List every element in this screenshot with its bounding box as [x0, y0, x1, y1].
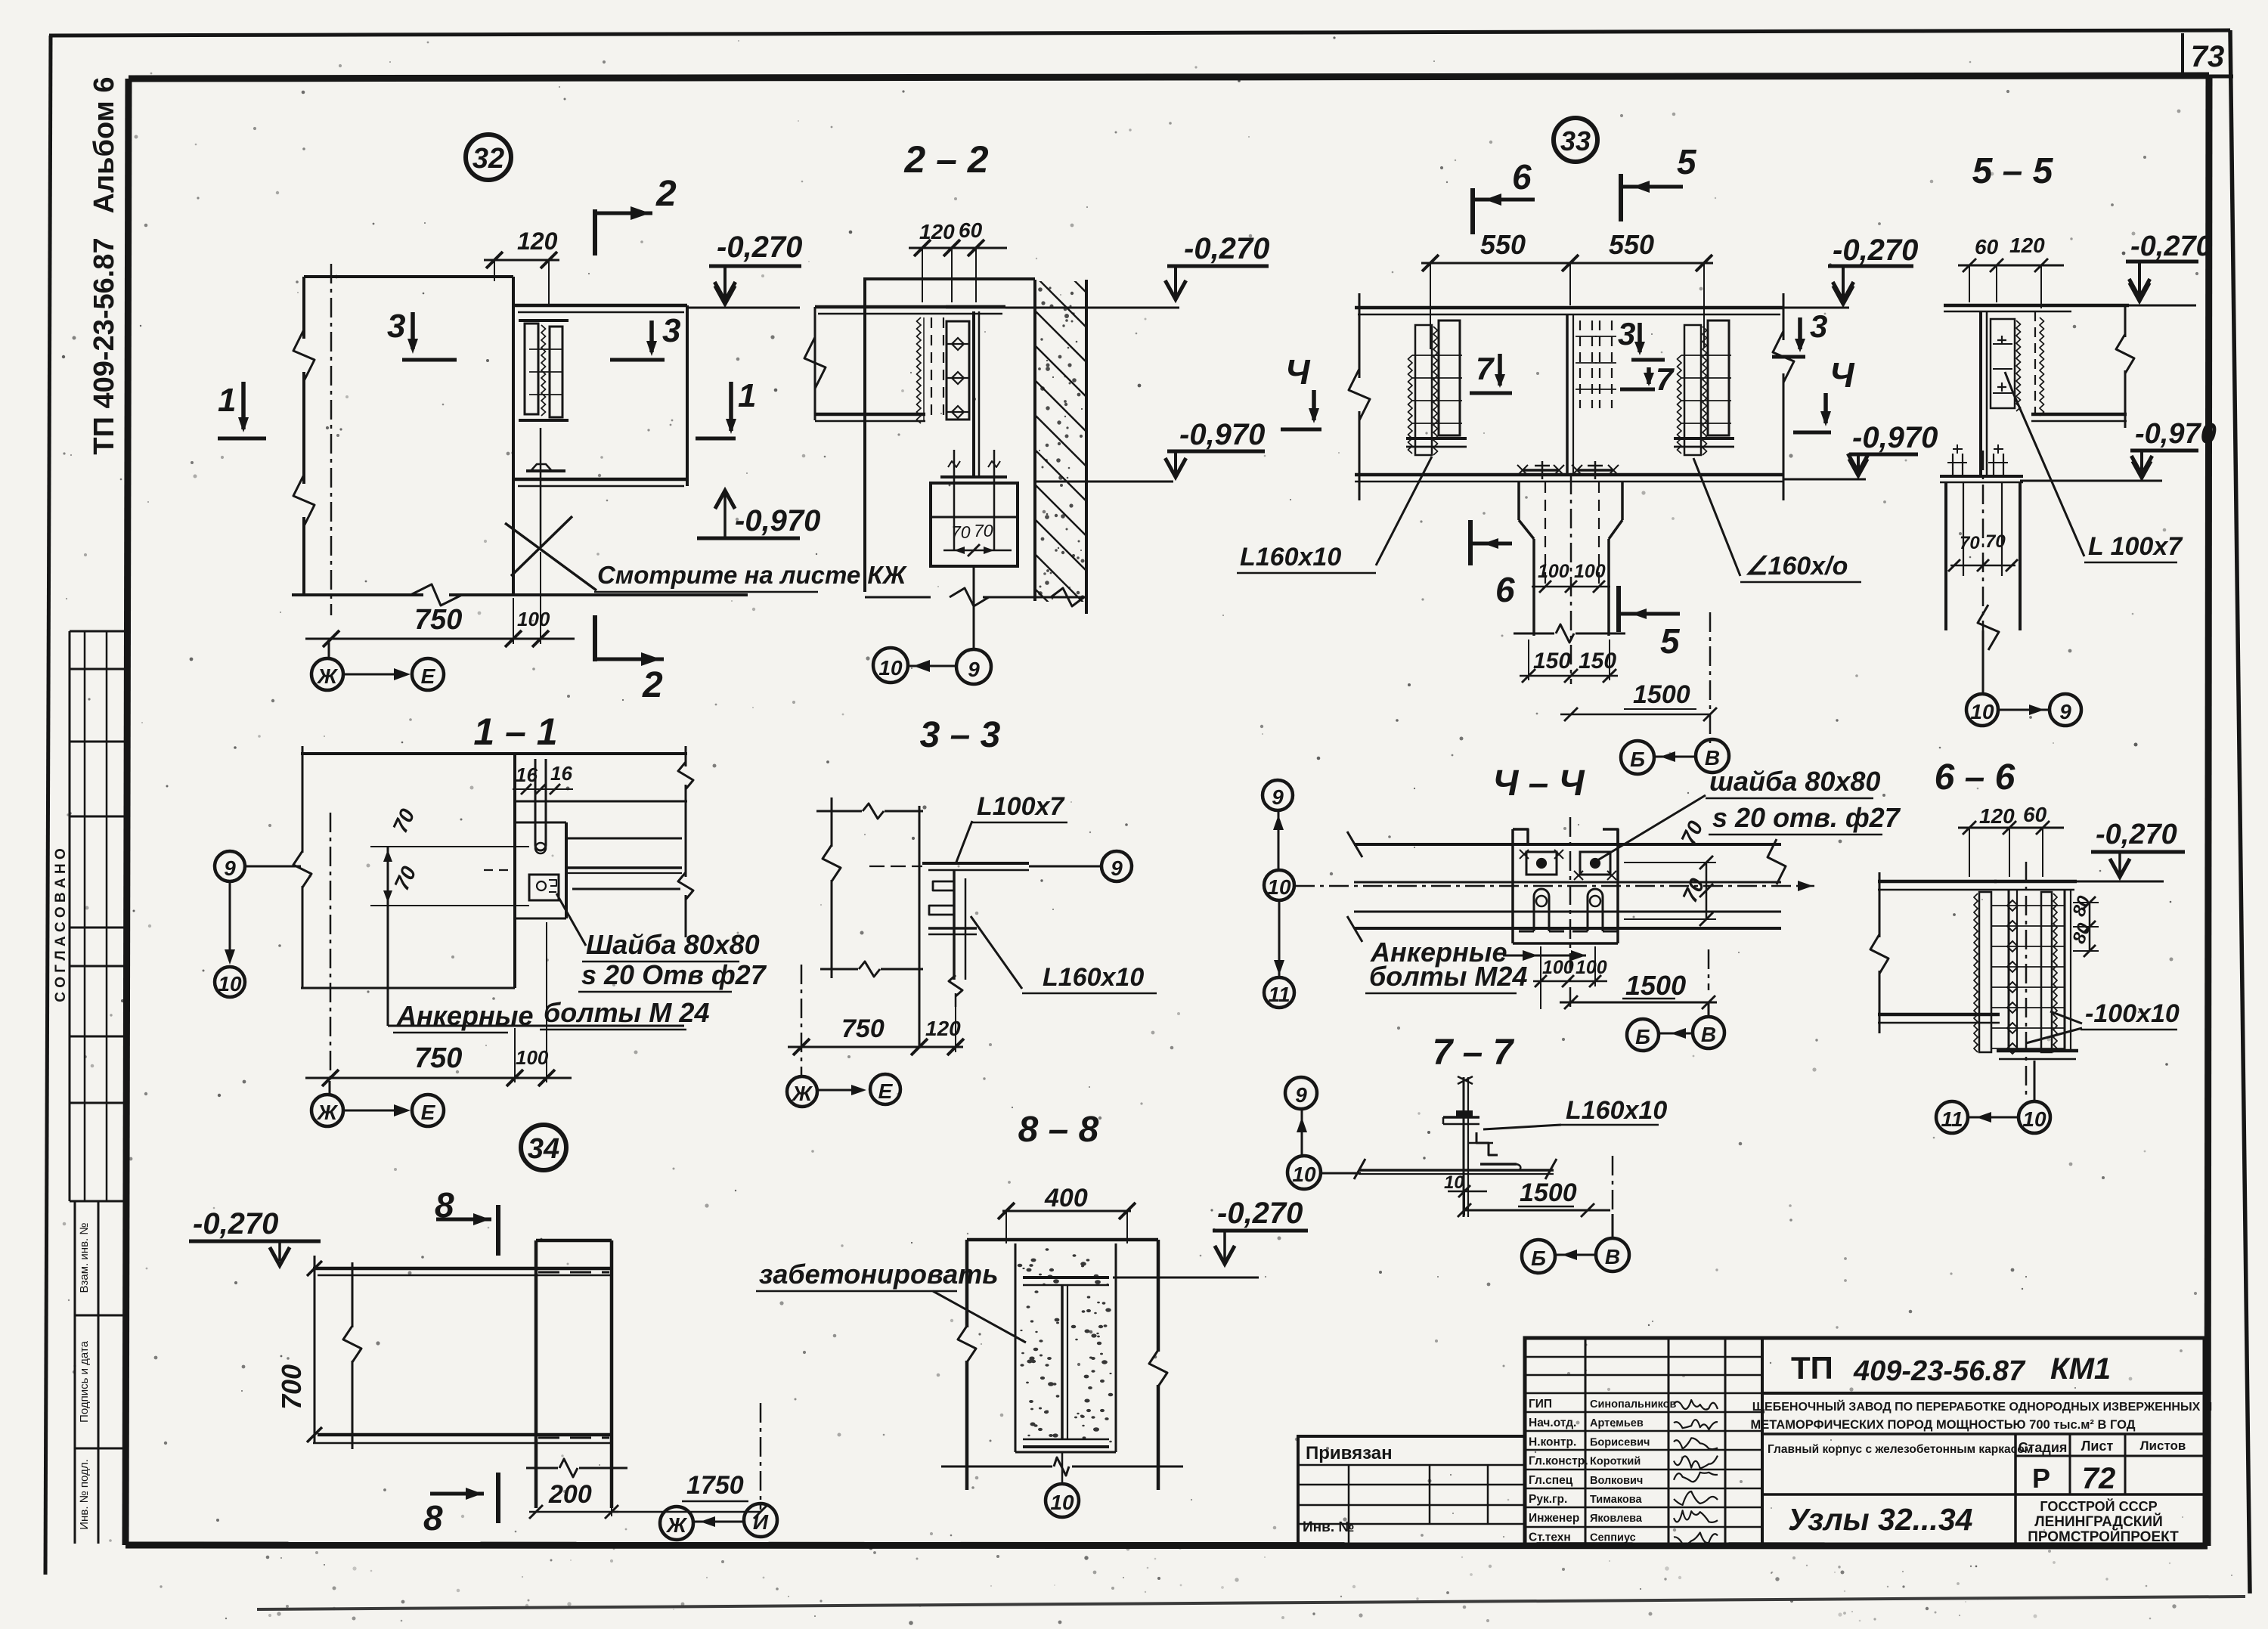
svg-text:73: 73	[2191, 40, 2225, 73]
svg-text:Узлы 32...34: Узлы 32...34	[1788, 1502, 1973, 1537]
section mark 6 bottom	[1468, 520, 1473, 565]
left angle plate	[1439, 321, 1460, 435]
slot with bolt 1-1	[534, 759, 537, 845]
section mark 2 top	[593, 209, 597, 255]
top angle plate 7-7	[1443, 1116, 1479, 1119]
svg-text:7: 7	[1476, 351, 1495, 386]
svg-text:Анкерные: Анкерные	[396, 1000, 534, 1031]
outer border right	[2230, 30, 2250, 1593]
sheet number box 73	[2181, 33, 2184, 77]
svg-text:ЛЕНИНГРАДСКИЙ: ЛЕНИНГРАДСКИЙ	[2034, 1513, 2162, 1530]
beam 33 right end	[1783, 293, 1785, 340]
svg-text:Смотрите на листе КЖ: Смотрите на листе КЖ	[597, 561, 908, 589]
section mark 8 bottom	[430, 1492, 484, 1496]
svg-text:120: 120	[919, 220, 955, 243]
svg-text:Ч – Ч: Ч – Ч	[1492, 763, 1585, 804]
pedestal detail 33	[1517, 482, 1520, 520]
column centerline	[330, 264, 333, 615]
svg-text:Стадия: Стадия	[2019, 1440, 2068, 1455]
centerline axis I 34	[760, 1403, 762, 1510]
svg-text:1500: 1500	[1633, 680, 1690, 709]
column edge detail 2-2	[863, 277, 866, 592]
svg-text:10: 10	[1970, 700, 1994, 723]
washer right 4-4	[1580, 852, 1610, 875]
column top cap 6-6	[1994, 880, 2077, 884]
svg-text:Ч: Ч	[1285, 352, 1311, 392]
tee top flange 5-5	[1944, 304, 2129, 308]
svg-text:Е: Е	[421, 664, 436, 688]
svg-text:750: 750	[414, 604, 462, 636]
hidden flange dashes in column	[538, 1271, 609, 1274]
beam 6-6 bottom flange	[1878, 1013, 2000, 1017]
dimension 80 80 detail 6-6	[2089, 903, 2091, 951]
svg-text:-0,970: -0,970	[2135, 418, 2217, 450]
axis line to bubble 9	[973, 566, 975, 649]
svg-text:-100х10: -100х10	[2085, 999, 2180, 1028]
axis bubble Zh-E 3-3	[787, 1076, 817, 1107]
svg-text:шайба 80х80: шайба 80х80	[1709, 766, 1880, 797]
svg-text:7 – 7: 7 – 7	[1433, 1033, 1515, 1073]
svg-text:И: И	[753, 1510, 769, 1534]
beam detail 2-2 top flange	[815, 305, 1005, 309]
T column web	[972, 311, 975, 477]
svg-text:34: 34	[528, 1133, 559, 1165]
detail 34 node circle	[521, 1125, 566, 1170]
svg-text:Главный корпус с железобетонны: Главный корпус с железобетонным каркасом	[1768, 1443, 2033, 1456]
svg-text:750: 750	[414, 1042, 462, 1074]
svg-text:Борисевич: Борисевич	[1590, 1436, 1650, 1448]
beam 33 left end	[1359, 293, 1361, 378]
slot right 4-4	[1587, 897, 1589, 931]
svg-text:5: 5	[1660, 621, 1681, 661]
svg-text:32: 32	[472, 143, 504, 175]
beam lines right 1-1	[566, 838, 682, 840]
svg-text:72: 72	[2082, 1462, 2116, 1495]
wall left line 3-3	[831, 797, 833, 847]
beam line 7-7	[1359, 1169, 1554, 1172]
detail 33 node circle	[1554, 118, 1597, 162]
svg-text:70: 70	[1985, 531, 2006, 552]
svg-text:3: 3	[1810, 308, 1827, 344]
pedestal bolt lines 5-5	[1963, 482, 1964, 576]
anchor bolts detail 2-2	[953, 450, 956, 550]
svg-text:Нач.отд.: Нач.отд.	[1529, 1417, 1576, 1429]
right angle plate	[1708, 321, 1729, 435]
svg-text:Ж: Ж	[665, 1513, 688, 1537]
axis bubbles 9 10 left	[215, 851, 245, 881]
svg-text:100: 100	[1538, 561, 1569, 582]
angle foot 7-7	[1480, 1163, 1517, 1166]
diagonal brace lines	[511, 516, 572, 576]
beam 33 bottom flange	[1355, 473, 1783, 477]
svg-text:1750: 1750	[686, 1471, 744, 1500]
svg-text:Инженер: Инженер	[1529, 1512, 1579, 1525]
svg-text:L160х10: L160х10	[1043, 963, 1144, 992]
svg-text:ЩЕБЕНОЧНЫЙ ЗАВОД ПО ПЕРЕРАБОТК: ЩЕБЕНОЧНЫЙ ЗАВОД ПО ПЕРЕРАБОТКЕ ОДНОРОДН…	[1752, 1399, 2213, 1414]
axis bubble Zh-E 1-1	[329, 1081, 331, 1095]
svg-text:Альбом 6: Альбом 6	[88, 77, 120, 214]
title block outer	[1525, 1338, 2204, 1546]
svg-text:Б: Б	[1635, 1025, 1650, 1048]
beam right end break 1-1	[685, 746, 687, 766]
level mark -0.970 detail 32	[715, 491, 735, 509]
svg-text:6: 6	[1512, 157, 1532, 197]
right angle assembly serrated strip	[1684, 325, 1701, 455]
axis line to bubble 10	[1982, 630, 1984, 694]
title block right section	[1762, 1392, 2204, 1395]
angle L160 vertical leg 3-3	[928, 927, 977, 930]
plan rect 1-1	[387, 847, 389, 1026]
section mark 2 bottom	[593, 615, 597, 661]
cross tick 7-7	[1467, 1142, 1493, 1144]
weld serration detail 2-2	[917, 317, 922, 423]
weld serration	[541, 325, 546, 416]
svg-text:ТП 409-23-56.87: ТП 409-23-56.87	[88, 237, 120, 454]
svg-text:9: 9	[1295, 1083, 1307, 1107]
svg-text:9: 9	[224, 856, 236, 880]
svg-text:МЕТАМОРФИЧЕСКИХ ПОРОД МОЩНОСТЬ: МЕТАМОРФИЧЕСКИХ ПОРОД МОЩНОСТЬЮ 700 тыс.…	[1750, 1418, 2135, 1432]
I-beam flange bottom	[519, 419, 569, 422]
splice centerline 4-4	[1569, 817, 1572, 1011]
svg-text:409-23-56.87: 409-23-56.87	[1853, 1355, 2026, 1387]
svg-text:10: 10	[2022, 1107, 2046, 1131]
column outline detail 32	[304, 275, 513, 278]
svg-text:100: 100	[517, 608, 550, 630]
svg-text:550: 550	[1609, 229, 1654, 260]
svg-text:10: 10	[878, 656, 903, 680]
svg-text:6: 6	[1495, 570, 1515, 609]
svg-text:Волкович: Волкович	[1590, 1475, 1643, 1487]
svg-text:Ч: Ч	[1830, 355, 1855, 395]
axis bubble 11 detail 6-6	[1936, 1101, 1968, 1133]
wall bottom line 3-3	[820, 968, 858, 971]
base bolts 5-5	[1952, 454, 1954, 476]
splice plate 4-4	[1513, 829, 1618, 844]
svg-text:Короткий: Короткий	[1590, 1456, 1641, 1468]
washer square 1-1	[529, 875, 559, 900]
svg-text:ГИП: ГИП	[1529, 1398, 1552, 1411]
axis dashdot 7-7	[1612, 1156, 1614, 1214]
axis bubble B-V 7-7	[1522, 1240, 1555, 1273]
axis bubbles 9 10 11 left of 4-4	[1263, 780, 1293, 810]
axis bubble 9 detail 2-2	[956, 649, 991, 684]
svg-text:9: 9	[2059, 700, 2071, 723]
staff signatures	[1674, 1400, 1718, 1410]
svg-text:7: 7	[1656, 361, 1675, 397]
bolt gauge lines 6-6	[1991, 906, 2065, 1048]
bottom sidebar strip table	[74, 1201, 76, 1544]
angle serrated plate 5-5	[1991, 319, 2015, 408]
svg-text:Лист: Лист	[2081, 1439, 2114, 1454]
svg-text:∠160х/о: ∠160х/о	[1745, 552, 1848, 581]
svg-text:120: 120	[925, 1017, 961, 1040]
svg-text:-0,270: -0,270	[717, 231, 802, 264]
pedestal centerline	[1570, 475, 1572, 684]
svg-text:9: 9	[1272, 785, 1284, 809]
connection plate left	[525, 324, 538, 414]
plate strip verticals 1-1	[513, 754, 516, 988]
pedestal centerline 5-5	[1982, 451, 1984, 694]
channel profile 3-3	[953, 870, 956, 980]
svg-text:-0,970: -0,970	[1179, 418, 1265, 451]
svg-text:Сеппиус: Сеппиус	[1590, 1531, 1636, 1544]
section mark 5 top	[1619, 174, 1623, 221]
svg-text:9: 9	[968, 658, 980, 681]
hidden angle middle dashed	[1579, 321, 1581, 408]
svg-text:700: 700	[276, 1364, 307, 1410]
axis extension dashdot	[1709, 612, 1712, 745]
svg-text:Тимакова: Тимакова	[1590, 1494, 1642, 1506]
svg-text:-0,970: -0,970	[735, 504, 820, 537]
svg-text:Листов: Листов	[2140, 1439, 2186, 1453]
left assembly bottom plate	[1406, 437, 1467, 440]
beam second line 1-1	[515, 801, 687, 803]
svg-text:11: 11	[1268, 983, 1290, 1006]
left serrated strip 6-6	[1979, 892, 1991, 1052]
axis bubble B-V detail 33	[1621, 741, 1654, 774]
svg-text:3: 3	[387, 308, 405, 345]
right assembly bottom plate	[1674, 437, 1734, 440]
beam 34 bottom flange	[318, 1433, 612, 1437]
svg-text:С О Г Л А С О В А Н О: С О Г Л А С О В А Н О	[53, 848, 69, 1002]
svg-text:Гл.констр.: Гл.констр.	[1529, 1455, 1588, 1468]
svg-text:ТП: ТП	[1791, 1350, 1833, 1386]
axis bubble 9 detail 5-5	[2050, 694, 2081, 726]
hidden lines gusset	[931, 317, 932, 420]
svg-text:400: 400	[1044, 1184, 1088, 1212]
svg-text:Н.контр.: Н.контр.	[1529, 1435, 1576, 1448]
axis bubble B-V 4-4	[1627, 1019, 1659, 1051]
privyazan box	[1298, 1436, 1525, 1545]
I-beam flange top	[519, 319, 569, 322]
svg-text:10: 10	[1292, 1163, 1316, 1186]
axis bubble 10 detail 5-5	[1966, 694, 1998, 726]
axis bubble 10 detail 2-2	[873, 648, 908, 683]
svg-text:-0,970: -0,970	[1852, 421, 1938, 454]
svg-text:Р: Р	[2032, 1463, 2050, 1494]
angle step 7-7	[1476, 1132, 1498, 1155]
svg-text:10: 10	[1444, 1172, 1464, 1193]
concrete pocket 8-8	[1015, 1243, 1017, 1452]
svg-text:150: 150	[1579, 649, 1616, 674]
axis line to bubble 10 6-6	[2034, 1061, 2036, 1101]
svg-text:150: 150	[1533, 649, 1571, 674]
axis bubble 10 detail 6-6	[2019, 1101, 2050, 1133]
svg-text:60: 60	[2023, 803, 2047, 826]
svg-text:L 100х7: L 100х7	[2088, 532, 2183, 561]
pedestal break line	[1514, 633, 1554, 635]
svg-text:-0,270: -0,270	[2096, 819, 2177, 850]
beam plan right break	[1768, 839, 1786, 884]
svg-text:3 – 3: 3 – 3	[920, 715, 1001, 755]
slot left 4-4	[1533, 897, 1535, 931]
wall right line 3-3	[919, 806, 921, 1048]
svg-text:10: 10	[1267, 875, 1291, 899]
svg-text:60: 60	[959, 218, 983, 242]
svg-text:70: 70	[974, 521, 993, 540]
section mark 6 top	[1470, 188, 1475, 234]
svg-text:Подпись и дата: Подпись и дата	[78, 1340, 91, 1423]
section mark 5 bottom	[1616, 586, 1621, 632]
column face line	[512, 277, 515, 595]
pedestal break 5-5	[1978, 605, 1999, 650]
svg-text:Ж: Ж	[316, 664, 339, 688]
beam top flange detail 32	[513, 304, 687, 308]
svg-text:1: 1	[218, 382, 236, 419]
svg-text:100: 100	[1576, 957, 1607, 978]
centerline 1-1	[330, 813, 332, 1082]
beam detail 2-2 bottom flange	[815, 413, 925, 417]
svg-text:Б: Б	[1630, 748, 1645, 771]
svg-text:-0,270: -0,270	[1833, 234, 1918, 267]
axis bubbles 9 10 7-7	[1285, 1077, 1317, 1109]
column break line 34	[526, 1467, 558, 1470]
axis 10 line 7-7	[1321, 1172, 1361, 1175]
left angle assembly serrated strip	[1415, 325, 1432, 455]
splice joint centerline	[1566, 314, 1569, 475]
column 34	[534, 1240, 538, 1508]
svg-text:120: 120	[2009, 234, 2045, 257]
bolt plate 6-6	[2008, 890, 2010, 1051]
svg-text:8: 8	[423, 1498, 443, 1538]
svg-text:Гл.спец: Гл.спец	[1529, 1474, 1573, 1487]
svg-text:2: 2	[655, 174, 677, 214]
axis bubble Zh-I 34	[660, 1507, 693, 1540]
svg-text:-0,270: -0,270	[1184, 232, 1269, 265]
bolt plate detail 2-2	[947, 321, 969, 420]
beam plan top edge 4-4	[1354, 843, 1781, 846]
svg-text:550: 550	[1480, 229, 1526, 260]
svg-text:ПРОМСТРОЙПРОЕКТ: ПРОМСТРОЙПРОЕКТ	[2028, 1528, 2179, 1545]
svg-text:11: 11	[1941, 1107, 1963, 1131]
column web 5-5	[1979, 311, 1982, 475]
svg-text:3: 3	[662, 312, 680, 349]
svg-text:5: 5	[1677, 142, 1697, 181]
svg-text:-0,270: -0,270	[193, 1207, 278, 1240]
svg-text:L160х10: L160х10	[1240, 543, 1341, 571]
dimension 750/100 detail 32	[305, 638, 575, 640]
column centerline 6-6	[2025, 862, 2028, 1098]
svg-text:забетонировать: забетонировать	[759, 1259, 999, 1290]
svg-text:Синопальников: Синопальников	[1590, 1398, 1677, 1411]
beam bottom flange detail 32	[513, 478, 687, 482]
svg-text:120: 120	[517, 228, 558, 255]
svg-text:болты М24: болты М24	[1369, 961, 1527, 992]
beam right end	[686, 305, 689, 486]
svg-text:2 – 2: 2 – 2	[903, 138, 988, 181]
svg-text:Ст.техн: Ст.техн	[1529, 1531, 1571, 1544]
svg-text:Ж: Ж	[316, 1101, 339, 1124]
svg-text:В: В	[1605, 1245, 1620, 1268]
bolt plates under beam	[1523, 469, 1559, 472]
angle top flange 3-3	[922, 862, 1029, 865]
svg-text:750: 750	[841, 1014, 885, 1043]
svg-text:10: 10	[218, 972, 242, 996]
hidden edge dashed 5-5	[2034, 311, 2036, 414]
column bottom cap 6-6	[1997, 1049, 2078, 1053]
svg-text:В: В	[1701, 1023, 1716, 1046]
dimension 750 120 3-3	[788, 1046, 963, 1048]
svg-text:L100х7: L100х7	[977, 792, 1065, 821]
svg-text:1 – 1: 1 – 1	[473, 711, 557, 753]
beam left break 34	[352, 1262, 354, 1327]
svg-text:болты М 24: болты М 24	[544, 997, 709, 1028]
datum ground line	[292, 593, 423, 596]
svg-text:70: 70	[1960, 533, 1980, 553]
svg-text:8 – 8: 8 – 8	[1018, 1110, 1099, 1150]
beam left end break 1-1	[302, 746, 304, 853]
svg-text:Шайба 80х80: Шайба 80х80	[586, 929, 760, 960]
svg-text:s 20 Отв ф27: s 20 Отв ф27	[581, 959, 767, 990]
beam plan lines 4-4	[1354, 881, 1781, 884]
I-beam section 8-8	[1023, 1276, 1109, 1279]
right end lines 1-1	[566, 801, 686, 803]
svg-text:6 – 6: 6 – 6	[1935, 757, 2015, 797]
beam 33 top flange	[1355, 306, 1783, 310]
wall top line 3-3	[816, 810, 862, 813]
svg-text:-0,270: -0,270	[2130, 231, 2212, 262]
svg-text:Инв. № подл.: Инв. № подл.	[78, 1459, 91, 1529]
soglasovano table	[69, 631, 71, 1201]
svg-text:9: 9	[1111, 856, 1123, 880]
right serrated strip 6-6	[2041, 892, 2052, 1052]
concrete wall detail 2-2	[1033, 280, 1036, 601]
svg-text:1: 1	[738, 377, 756, 414]
svg-text:1500: 1500	[1520, 1178, 1577, 1207]
svg-text:Е: Е	[421, 1101, 436, 1124]
column outline 8-8	[965, 1240, 969, 1327]
dimension 700 vertical 34	[314, 1256, 316, 1443]
svg-text:1500: 1500	[1625, 970, 1686, 1001]
svg-text:2: 2	[642, 665, 663, 705]
beam plan left break ticks	[1347, 832, 1362, 857]
beam right end 5-5	[2124, 305, 2127, 337]
concrete speckles 8-8	[1018, 1248, 1114, 1442]
beam top edge 1-1	[301, 752, 687, 755]
svg-text:100: 100	[1574, 561, 1606, 582]
foundation block detail 2-2	[931, 483, 1018, 566]
wall concrete speckles	[1038, 286, 1085, 599]
svg-text:Б: Б	[1531, 1247, 1546, 1270]
T column top flange	[946, 305, 1005, 309]
paper bottom edge	[257, 1596, 2245, 1609]
title block staff grid	[1585, 1338, 1587, 1546]
vertical member 7-7	[1463, 1077, 1465, 1217]
svg-text:Е: Е	[878, 1079, 894, 1103]
svg-text:5 – 5: 5 – 5	[1972, 151, 2054, 191]
outer border top	[49, 30, 2230, 36]
svg-text:200: 200	[548, 1480, 592, 1509]
svg-text:70: 70	[951, 522, 971, 542]
axis bubble Zh-E detail 32	[328, 642, 330, 658]
svg-text:Ж: Ж	[791, 1082, 813, 1105]
svg-text:Инв. №: Инв. №	[1303, 1519, 1355, 1535]
svg-text:10: 10	[1050, 1491, 1074, 1514]
axis line to bubble 10 8-8	[1061, 1452, 1064, 1484]
svg-text:КМ1: КМ1	[2050, 1352, 2111, 1386]
beam 6-6 left end	[1879, 872, 1881, 937]
beam bottom flange 5-5	[2031, 413, 2127, 417]
beam detail 2-2 left break	[814, 307, 816, 420]
dimension 70 70 right 4-4	[1706, 863, 1708, 919]
dimension 70 70 vertical 1-1	[387, 847, 389, 906]
outer border left	[45, 36, 51, 1575]
axis 9 line 3-3	[869, 866, 922, 867]
svg-text:Привязан: Привязан	[1306, 1443, 1393, 1463]
base plate detail 32	[526, 469, 565, 472]
svg-text:3: 3	[1618, 316, 1635, 352]
anchor bolt detail 32	[540, 428, 542, 549]
